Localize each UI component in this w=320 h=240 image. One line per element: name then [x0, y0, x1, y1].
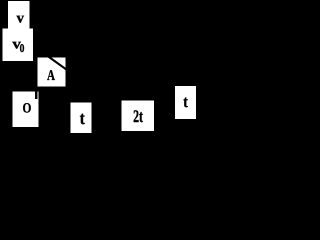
svg-text:2t: 2t — [133, 108, 143, 127]
label box t1 — [71, 103, 92, 134]
wire: axis fragment in box O — [35, 92, 38, 100]
svg-text:0: 0 — [20, 41, 25, 55]
svg-text:O: O — [22, 101, 31, 116]
svg-text:v: v — [16, 10, 24, 26]
label box v0 — [3, 29, 33, 61]
label box t2 — [175, 86, 196, 119]
label box v — [8, 1, 30, 29]
svg-text:t: t — [80, 109, 85, 129]
label box O — [12, 92, 38, 127]
label box 2t — [121, 100, 154, 131]
label box A — [38, 58, 66, 87]
svg-text:A: A — [47, 68, 56, 84]
wire: graph curve fragment through box A — [48, 56, 68, 71]
svg-text:t: t — [183, 94, 188, 112]
